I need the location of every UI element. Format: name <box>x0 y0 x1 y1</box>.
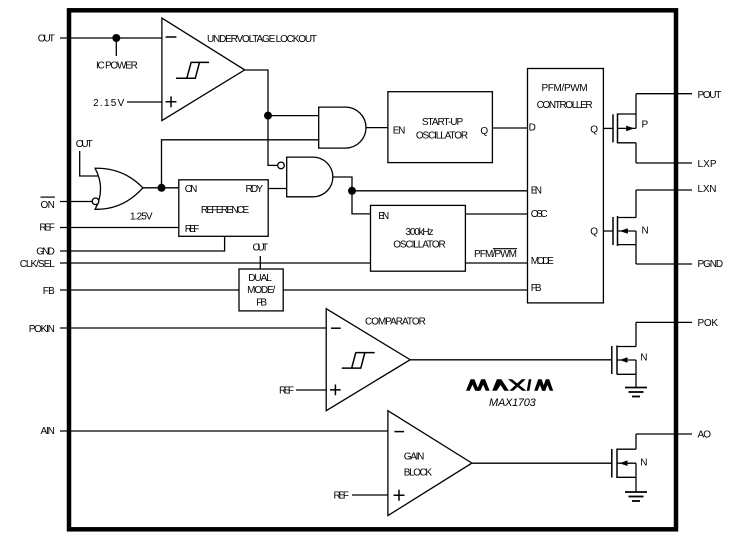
transistor Q2 channel bar <box>617 216 619 246</box>
wire comparator output to POK FET gate <box>410 359 612 361</box>
wire node B to 300kHz OSC EN <box>352 191 371 214</box>
wire UVLO output down to AND2 bubble <box>245 70 278 165</box>
svg-text:REF: REF <box>39 222 54 233</box>
wire REF to comparator plus <box>296 389 326 391</box>
wire OR gate output to REFERENCE ON <box>143 187 179 189</box>
transistor Q3 body arrow <box>620 357 628 363</box>
svg-text:ON: ON <box>41 200 55 211</box>
Maxim logo letter M2 first peak <box>534 379 545 391</box>
wire node A to AND1 input2 <box>162 140 319 188</box>
Maxim logo letter M second peak <box>477 379 490 391</box>
svg-text:EN: EN <box>393 125 406 136</box>
UVLO hysteresis symbol <box>176 62 209 78</box>
svg-text:Q: Q <box>590 227 598 238</box>
svg-text:DUAL: DUAL <box>248 273 272 284</box>
transistor Q4 leads <box>617 434 636 492</box>
svg-text:MODE/: MODE/ <box>247 285 275 296</box>
wire node to AND1 input1 <box>268 115 319 117</box>
wire gain block output to AO FET gate <box>472 462 612 464</box>
junction dot AND2 output node <box>348 187 356 195</box>
wire AND1 output to START-UP OSC EN <box>365 127 388 129</box>
wire CLK/SEL pin to MODE input <box>60 262 528 264</box>
gain block minus sign <box>394 431 404 433</box>
svg-text:PFM/PWM: PFM/PWM <box>474 249 517 260</box>
op-amp U4 gain block <box>388 411 472 516</box>
svg-text:GND: GND <box>36 246 55 257</box>
svg-text:ON: ON <box>185 184 198 195</box>
svg-text:AO: AO <box>698 430 712 441</box>
svg-text:1.25V: 1.25V <box>130 212 153 223</box>
wire REF pin to REFERENCE box <box>60 227 179 229</box>
Maxim logo letter X slash stroke <box>509 379 526 391</box>
wire IC POWER stub <box>115 38 117 56</box>
wire FB pin to controller FB input <box>60 289 528 291</box>
transistor Q1 P-channel MOSFET gate bar <box>612 114 614 142</box>
wire LXP pin <box>636 162 692 164</box>
svg-text:EN: EN <box>378 211 389 222</box>
and-gate G3 <box>287 157 333 197</box>
transistor Q1 leads <box>618 94 637 163</box>
wire 300kHz output to controller OSC <box>465 213 527 215</box>
junction dot UVLO output node <box>264 112 272 120</box>
junction dot OR output node <box>158 184 166 192</box>
svg-text:N: N <box>640 352 647 363</box>
Maxim logo letter I <box>527 379 532 391</box>
transistor Q1 body arrow <box>626 126 634 132</box>
svg-text:GAIN: GAIN <box>404 451 425 462</box>
wire controller Q2 to N-FET gate <box>603 230 613 232</box>
wire 2.15V to UVLO plus input <box>127 101 162 103</box>
svg-text:OUT: OUT <box>76 139 93 150</box>
comparator plus sign <box>330 385 341 396</box>
svg-text:RDY: RDY <box>246 184 264 195</box>
svg-text:FB: FB <box>43 286 55 297</box>
svg-text:MODE: MODE <box>531 256 554 267</box>
wire ON pin to OR gate bubble <box>60 201 92 203</box>
svg-text:POK: POK <box>698 318 719 329</box>
comparator minus sign <box>331 327 341 329</box>
svg-text:AIN: AIN <box>41 426 55 437</box>
transistor Q3 leads <box>617 322 636 387</box>
svg-text:PGND: PGND <box>698 259 724 270</box>
junction dot OUT/IC POWER <box>112 34 120 42</box>
wire POK pin <box>636 321 692 323</box>
svg-text:EN: EN <box>531 186 542 197</box>
wire OUT pin to UVLO minus input <box>60 37 162 39</box>
comparator U3 <box>326 309 410 411</box>
svg-text:OSCILLATOR: OSCILLATOR <box>393 240 446 251</box>
overline for PWM in PFM/PWM net label <box>493 248 517 250</box>
svg-text:MAX1703: MAX1703 <box>489 397 537 409</box>
transistor Q4 body arrow <box>620 460 628 466</box>
svg-text:2.15V: 2.15V <box>93 98 125 109</box>
svg-text:OSC: OSC <box>531 209 548 220</box>
comparator hysteresis symbol <box>342 353 375 369</box>
Maxim logo letter A <box>492 379 509 391</box>
svg-text:FB: FB <box>531 283 542 294</box>
ground symbol for Q3 <box>625 387 647 389</box>
Maxim logo letter X backslash stroke <box>508 379 527 391</box>
svg-text:P: P <box>642 119 649 130</box>
svg-text:REF: REF <box>185 224 200 235</box>
svg-text:REF: REF <box>279 386 294 397</box>
svg-text:IC POWER: IC POWER <box>96 61 138 72</box>
svg-text:Q: Q <box>590 125 598 136</box>
UVLO plus sign <box>166 96 177 107</box>
wire GND pin to REFERENCE box bottom <box>60 236 225 251</box>
dual mode/FB box <box>239 269 283 311</box>
or-gate G1 input bubble <box>92 198 99 205</box>
PFM/PWM controller box U1 <box>528 69 604 303</box>
transistor Q4 channel bar <box>616 449 618 479</box>
start-up oscillator box <box>388 92 493 163</box>
wire REFERENCE RDY to AND2 input <box>268 188 287 190</box>
svg-text:Q: Q <box>480 126 488 137</box>
ground symbol for Q4 <box>625 491 647 493</box>
svg-text:PFM/PWM: PFM/PWM <box>541 83 587 94</box>
svg-text:OUT: OUT <box>38 34 55 45</box>
border frame <box>69 10 676 529</box>
reference block box <box>179 180 268 237</box>
svg-text:LXN: LXN <box>698 184 717 195</box>
wire START-UP Q to controller D <box>492 127 527 129</box>
svg-text:D: D <box>529 123 536 134</box>
wire REF to gain block plus <box>352 494 388 496</box>
and-gate G3 input bubble <box>278 162 285 169</box>
wire AO pin <box>636 433 692 435</box>
svg-text:BLOCK: BLOCK <box>404 468 433 479</box>
transistor Q2 body arrow <box>620 228 628 234</box>
wire POKIN pin to comparator minus <box>60 327 326 329</box>
wire PGND pin <box>636 263 692 265</box>
op-amp U2 undervoltage lockout comparator <box>162 18 245 121</box>
svg-text:OSCILLATOR: OSCILLATOR <box>416 130 468 141</box>
svg-text:300kHz: 300kHz <box>406 227 434 238</box>
wire LXN pin <box>636 189 692 191</box>
svg-text:COMPARATOR: COMPARATOR <box>365 317 426 328</box>
svg-text:POUT: POUT <box>698 90 722 101</box>
svg-text:OUT: OUT <box>252 242 268 253</box>
gain block plus sign <box>394 490 405 501</box>
svg-text:N: N <box>642 225 649 236</box>
wire POUT pin <box>636 93 692 95</box>
UVLO minus sign <box>166 36 177 38</box>
wire controller Q1 to P-FET gate <box>603 127 613 129</box>
svg-text:LXP: LXP <box>698 159 717 170</box>
transistor Q2 leads <box>618 190 637 264</box>
wire AIN pin to gain block minus <box>60 430 388 432</box>
wire node B to controller EN <box>352 190 528 192</box>
Maxim logo letter M2 second peak <box>542 379 553 391</box>
svg-text:POKIN: POKIN <box>29 324 55 335</box>
300kHz oscillator box <box>371 205 466 271</box>
svg-text:REF: REF <box>334 491 350 502</box>
transistor Q4 N-channel MOSFET gate bar <box>611 449 613 478</box>
svg-text:CONTROLLER: CONTROLLER <box>537 100 593 111</box>
transistor Q2 N-channel MOSFET gate bar <box>612 217 614 245</box>
svg-text:START-UP: START-UP <box>422 117 464 128</box>
or-gate G1 <box>95 168 143 209</box>
svg-text:N: N <box>640 457 647 468</box>
transistor Q1 channel bar <box>617 113 619 143</box>
transistor Q3 N-channel MOSFET gate bar <box>611 346 613 374</box>
svg-text:CLK/SEL: CLK/SEL <box>20 259 56 270</box>
wire OUT stub to OR gate top input <box>80 151 99 176</box>
wire OUT stub to DUAL MODE box <box>259 256 261 269</box>
and-gate G2 <box>319 107 366 148</box>
svg-text:FB: FB <box>256 298 267 309</box>
Maxim logo letter M first peak <box>466 379 479 391</box>
overline for ON pin <box>41 196 55 198</box>
svg-text:UNDERVOLTAGE LOCKOUT: UNDERVOLTAGE LOCKOUT <box>207 34 317 45</box>
svg-text:REFERENCE: REFERENCE <box>201 205 250 216</box>
transistor Q3 channel bar <box>616 346 618 375</box>
wire AND2 output to node B <box>333 177 352 191</box>
